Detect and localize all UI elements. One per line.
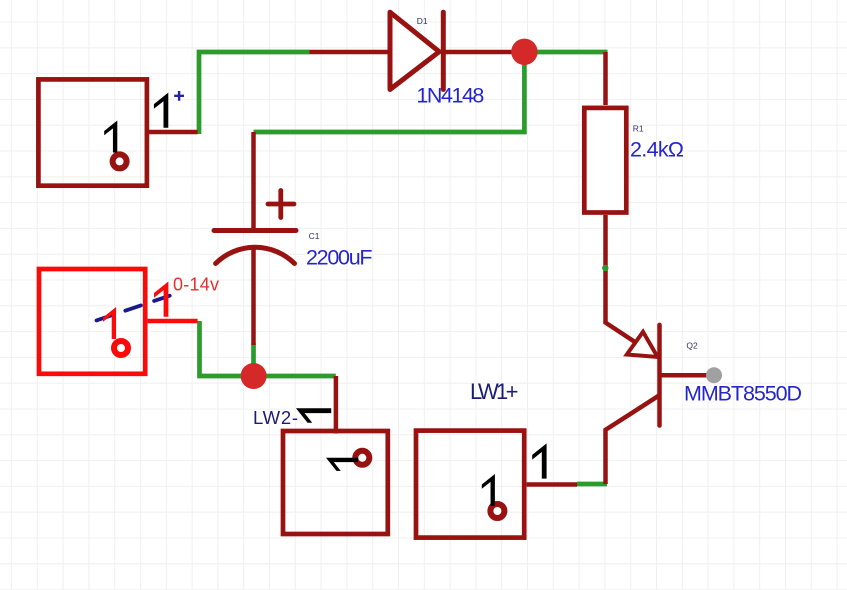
svg-text:LW2-: LW2- — [253, 407, 298, 428]
svg-text:C1: C1 — [309, 231, 320, 241]
svg-text:LW1+: LW1+ — [470, 379, 519, 404]
svg-text:2.4kΩ: 2.4kΩ — [630, 138, 684, 162]
svg-text:0-14v: 0-14v — [173, 274, 219, 294]
svg-text:D1: D1 — [417, 16, 428, 26]
svg-text:2200uF: 2200uF — [306, 246, 373, 270]
svg-text:R1: R1 — [633, 124, 644, 134]
svg-text:1N4148: 1N4148 — [416, 83, 484, 107]
svg-text:MMBT8550D: MMBT8550D — [684, 381, 802, 405]
svg-text:Q2: Q2 — [686, 340, 698, 350]
